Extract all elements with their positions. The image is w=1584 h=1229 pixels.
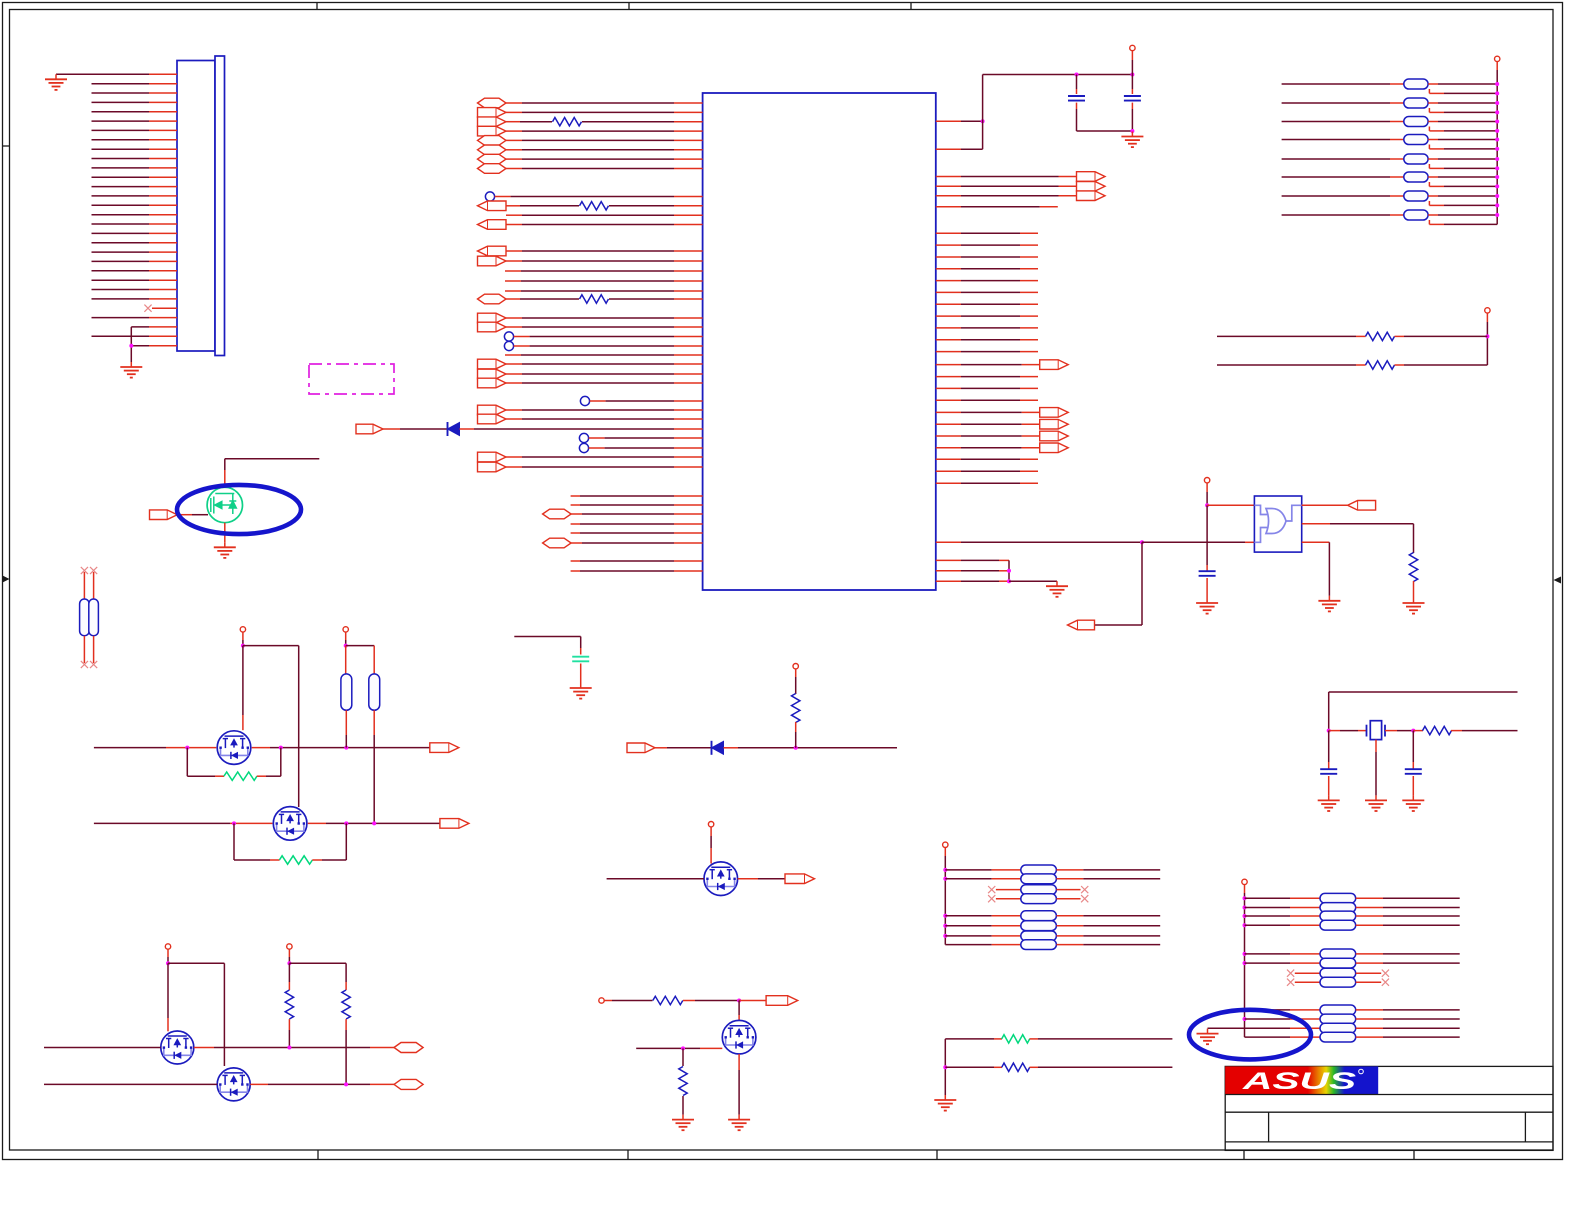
svg-text:ASUS: ASUS: [1241, 1068, 1356, 1095]
